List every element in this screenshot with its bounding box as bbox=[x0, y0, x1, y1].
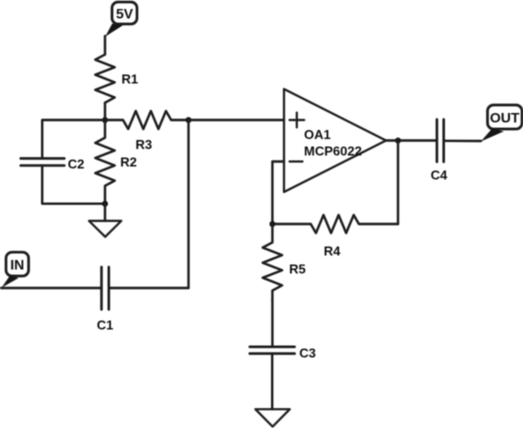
resistor R1 bbox=[95, 55, 138, 103]
ground (bottom) bbox=[255, 409, 289, 426]
svg-text:C2: C2 bbox=[68, 156, 85, 171]
wire op-amp - input to node D bbox=[272, 162, 284, 225]
wire C4 to OUT bbox=[444, 140, 481, 143]
svg-text:R5: R5 bbox=[289, 261, 306, 276]
resistor R2 bbox=[95, 120, 137, 204]
svg-text:IN: IN bbox=[10, 256, 24, 272]
wire output down to R4 bbox=[397, 141, 399, 225]
wire node A to C2 bbox=[42, 120, 105, 158]
wire op-amp output to C4 bbox=[386, 139, 437, 141]
wire node C to op-amp + input bbox=[189, 119, 285, 121]
wire IN to C1 bbox=[1, 287, 102, 289]
wire R5 to C3 bbox=[271, 300, 273, 347]
svg-text:OUT: OUT bbox=[490, 110, 520, 126]
op-amp OA1 bbox=[284, 89, 386, 192]
resistor R5 bbox=[263, 224, 306, 300]
svg-text:R4: R4 bbox=[324, 244, 341, 259]
node E (output) bbox=[395, 138, 401, 144]
power label 5V bbox=[105, 2, 137, 37]
svg-text:5V: 5V bbox=[116, 5, 134, 21]
capacitor C3 bbox=[250, 345, 316, 360]
svg-text:OA1: OA1 bbox=[304, 127, 331, 142]
wire R1 to node A bbox=[104, 103, 106, 120]
wire C1 to riser bbox=[109, 287, 189, 289]
ground (left) bbox=[89, 204, 121, 237]
wire node C down to C1 net bbox=[187, 120, 189, 288]
svg-text:R2: R2 bbox=[120, 155, 137, 170]
wire 5V to R1 bbox=[104, 36, 106, 55]
node D (feedback) bbox=[269, 221, 275, 227]
wire C2 to node B bbox=[42, 166, 105, 204]
resistor R3 bbox=[105, 111, 189, 152]
svg-text:MCP6022: MCP6022 bbox=[304, 144, 362, 159]
svg-text:C1: C1 bbox=[97, 318, 114, 333]
svg-text:R3: R3 bbox=[136, 137, 153, 152]
label OUT bbox=[481, 105, 522, 142]
capacitor C2 bbox=[21, 156, 85, 171]
svg-text:C4: C4 bbox=[431, 167, 448, 182]
svg-text:R1: R1 bbox=[122, 72, 139, 87]
capacitor C1 bbox=[97, 267, 114, 333]
resistor R4 bbox=[272, 215, 398, 259]
wire C3 to ground bbox=[271, 354, 273, 410]
capacitor C4 bbox=[431, 119, 448, 182]
label IN bbox=[2, 252, 29, 288]
node C bbox=[186, 117, 192, 123]
node B bbox=[102, 201, 108, 207]
svg-text:C3: C3 bbox=[299, 345, 316, 360]
node A bbox=[102, 117, 108, 123]
